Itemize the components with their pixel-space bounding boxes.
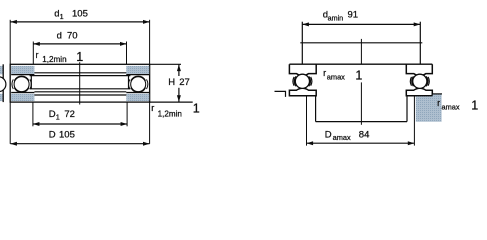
svg-text:1: 1: [76, 50, 83, 64]
dimension d line: [33, 43, 126, 45]
housing shoulder hatch block: [416, 94, 442, 121]
shaft washer hatch right: [126, 66, 149, 75]
svg-text:amax: amax: [333, 133, 351, 142]
svg-text:r: r: [151, 103, 154, 113]
bearing outline left view: [10, 64, 149, 102]
neighbor fragment hatch bottom: [0, 94, 3, 101]
groove arc under ball at 138.2: [131, 88, 146, 93]
extension line D1 left: [32, 102, 34, 126]
housing washer hatch left: [11, 94, 34, 101]
svg-text:H: H: [168, 77, 175, 88]
shaft washer bore edge line: [34, 72, 126, 74]
H extension top: [150, 63, 181, 65]
ball right: [131, 77, 146, 92]
groove arc over ball at 138.2: [131, 76, 146, 81]
housing shoulder wall line: [431, 94, 433, 96]
svg-text:1: 1: [56, 112, 60, 121]
svg-text:D: D: [325, 129, 332, 140]
svg-text:r: r: [437, 98, 440, 108]
H extension bottom: [150, 101, 193, 103]
svg-text:r: r: [323, 68, 326, 78]
shaft side right below bearing: [406, 96, 408, 122]
extension line left d1/D: [9, 20, 11, 144]
centerline right view lower: [360, 82, 362, 124]
groove rim arcs ball at 419.8: [412, 76, 414, 86]
shaft washer bottom line sectioned: [11, 74, 34, 76]
shaft washer hatch left: [11, 66, 34, 75]
dimension damin line: [302, 23, 420, 25]
cage pocket bar left of right ball: [128, 76, 130, 89]
svg-text:91: 91: [348, 9, 359, 20]
svg-text:1: 1: [355, 69, 362, 83]
housing washer hatch right: [126, 94, 149, 101]
svg-text:105: 105: [72, 9, 88, 20]
cage bottom rail: [30, 88, 131, 90]
housing washer outline left section: [289, 88, 316, 96]
cage pocket bar right of left ball: [30, 76, 32, 89]
svg-text:1,2min: 1,2min: [158, 109, 182, 118]
svg-text:105: 105: [59, 129, 75, 140]
svg-text:amax: amax: [442, 102, 460, 111]
svg-text:amin: amin: [328, 14, 344, 23]
svg-text:84: 84: [359, 129, 370, 140]
extension line d right: [126, 42, 128, 65]
extension line D1 right: [126, 102, 128, 126]
svg-text:r: r: [36, 50, 39, 60]
groove arc under ball at 21.6: [14, 88, 29, 93]
dimension D1 line: [33, 123, 127, 125]
neighbor fragment hatch top: [0, 66, 3, 74]
dimension Damax line: [307, 142, 415, 144]
housing washer outline right section: [406, 88, 432, 96]
shaft washer outline right section: [406, 64, 432, 75]
svg-text:D: D: [49, 109, 56, 120]
raceway groove arc left of right ball: [129, 79, 130, 89]
bearing top face line right view: [289, 63, 432, 65]
groove rim arcs ball at 302.4: [294, 76, 296, 86]
extension line Damax right: [413, 96, 415, 146]
extension line Damax left: [306, 96, 308, 146]
extension/side line damin left: [301, 22, 303, 64]
dimension d1 line: [10, 21, 149, 23]
extension line right d1/D: [149, 20, 151, 144]
extension line d left: [32, 42, 34, 65]
svg-text:amax: amax: [327, 72, 345, 81]
svg-text:72: 72: [64, 109, 75, 120]
raceway groove arc left of left ball: [12, 79, 13, 89]
shaft washer outline left section: [289, 64, 316, 75]
svg-text:1: 1: [471, 99, 478, 113]
housing washer bore edge line: [34, 91, 126, 93]
raceway groove arc right of left ball: [30, 79, 31, 89]
dimension D line: [10, 143, 149, 145]
raceway groove arc right of right ball: [147, 79, 148, 89]
housing shoulder lip line: [432, 93, 442, 95]
centerline left view: [79, 62, 81, 104]
svg-text:d: d: [57, 30, 62, 41]
neighbor fragment edge line: [2, 64, 4, 102]
centerline right view upper: [360, 39, 362, 65]
housing washer top line sectioned: [11, 92, 34, 94]
H dimension line: [178, 65, 180, 76]
svg-text:70: 70: [67, 30, 78, 41]
housing washer shoulder line: [34, 94, 126, 96]
shaft end face: [316, 121, 407, 123]
ball right right-view: [413, 74, 427, 88]
shaft shoulder top face: [300, 42, 422, 44]
ball left right-view: [295, 74, 309, 88]
svg-text:1: 1: [60, 12, 64, 21]
svg-text:D: D: [49, 129, 56, 140]
cage top rail: [30, 75, 131, 77]
shaft side left below bearing: [315, 96, 317, 122]
ball left: [14, 77, 29, 92]
groove arc over ball at 21.6: [14, 76, 29, 81]
svg-text:1: 1: [193, 102, 200, 116]
svg-text:1,2min: 1,2min: [42, 55, 66, 64]
svg-text:27: 27: [179, 77, 190, 88]
shaft seat step left (L profile): [275, 91, 286, 97]
extension/side line damin right: [419, 22, 421, 64]
neighbor fragment ball arc: [0, 77, 6, 92]
